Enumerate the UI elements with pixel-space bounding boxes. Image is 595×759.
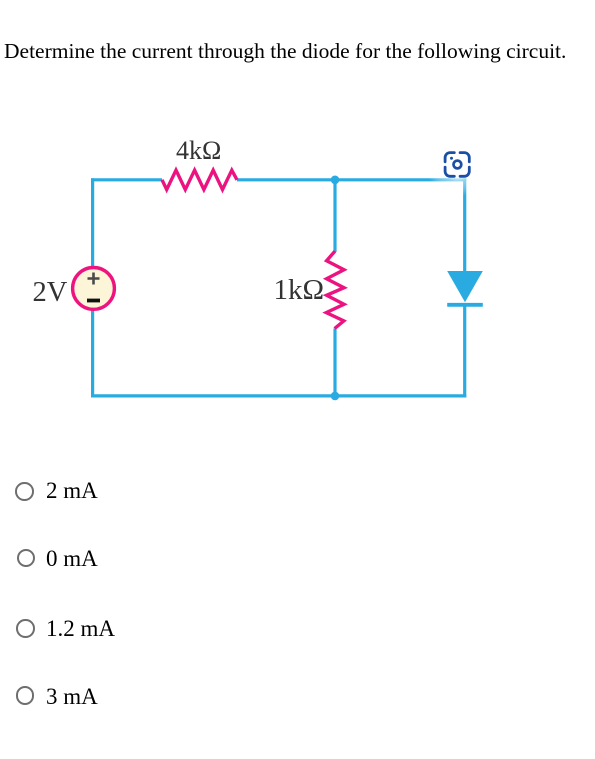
wire: middle vertical upper segment [333,180,336,252]
wire: top-left horizontal segment [91,178,162,181]
node junction dot bottom [331,392,340,401]
screenshot tool icon lens circle [454,161,462,169]
option text 1 [46,478,98,504]
resistor R2 1kΩ zigzag [326,251,344,328]
diode D1 cathode bar [447,303,483,307]
label 1kΩ [274,274,325,307]
option radio 2 [17,549,36,568]
wire: bottom horizontal [91,394,466,397]
label 4kΩ [176,136,221,166]
voltage source minus sign [87,299,100,303]
screenshot tool icon brackets [445,153,469,177]
wire: middle vertical lower segment [333,329,336,396]
node junction dot top [331,176,340,185]
wire: right vertical lower segment [463,305,466,398]
wire: left vertical upper segment [91,178,94,266]
option radio 1 [15,482,34,501]
wire: left vertical lower segment [91,311,94,398]
option radio 4 [16,686,35,705]
diode D1 triangle [447,271,483,302]
question title [4,39,566,64]
resistor R1 4kΩ zigzag [162,170,237,189]
wire: right vertical upper segment [463,178,466,271]
screenshot tool icon small dot [450,157,453,160]
voltage source V1 circle [73,268,115,310]
option radio 3 [16,619,35,638]
option text 4 [46,684,98,710]
voltage source plus sign [88,273,100,285]
label 2V [33,277,68,309]
option text 2 [46,546,98,572]
wire: top-right horizontal segment [237,178,466,181]
option text 3 [46,616,115,642]
